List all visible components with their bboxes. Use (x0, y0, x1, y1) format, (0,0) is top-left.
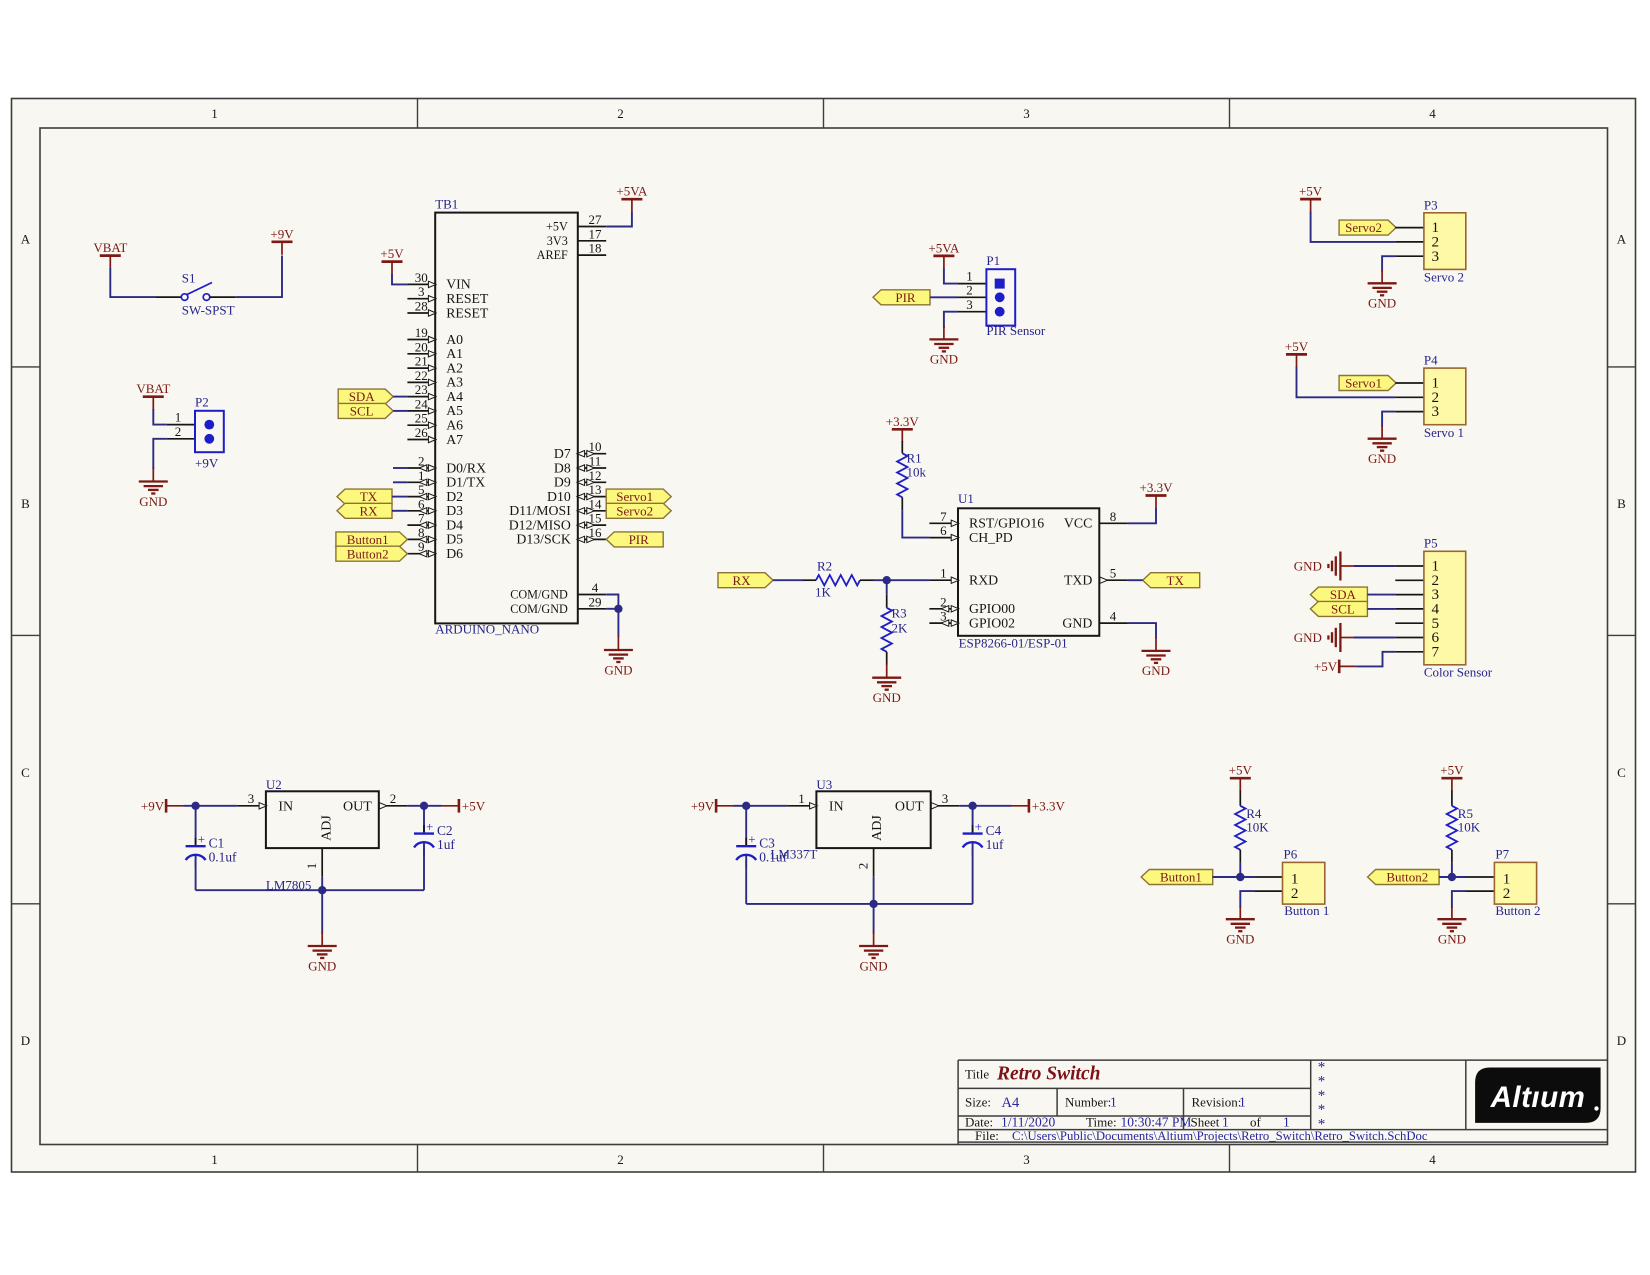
svg-text:1: 1 (1110, 1095, 1117, 1110)
svg-text:2: 2 (390, 791, 397, 806)
svg-text:SDA: SDA (1330, 587, 1357, 602)
svg-text:SDA: SDA (349, 389, 376, 404)
svg-text:2K: 2K (892, 620, 909, 635)
svg-text:+: + (975, 819, 982, 834)
ground GND (U1) (1142, 637, 1171, 678)
wire node to C3 (745, 806, 747, 846)
svg-text:SCL: SCL (1331, 602, 1355, 617)
svg-text:AREF: AREF (537, 248, 568, 262)
svg-text:1: 1 (211, 106, 218, 121)
TB1 pin 4 COM/GND (510, 580, 606, 602)
svg-text:A: A (1617, 232, 1627, 247)
svg-text:of: of (1250, 1114, 1262, 1129)
svg-text:P4: P4 (1424, 353, 1438, 368)
power +5V (U2 output) (442, 799, 486, 814)
wire SCL to P5 pin 4 (1367, 608, 1395, 610)
svg-text:P2: P2 (195, 395, 209, 410)
svg-text:1: 1 (940, 566, 947, 581)
wire Button2/R5 to P7 pin 1 with node (1439, 863, 1466, 881)
svg-text:A5: A5 (446, 403, 463, 418)
TB1 pin 10 D7 (554, 439, 606, 461)
svg-text:SCL: SCL (350, 404, 374, 419)
TB1 pin 8 D5 (407, 525, 463, 547)
svg-text:10: 10 (589, 439, 602, 454)
svg-text:D4: D4 (446, 517, 463, 532)
svg-text:28: 28 (415, 299, 428, 314)
svg-text:ADJ: ADJ (320, 815, 335, 841)
svg-text:ARDUINO_NANO: ARDUINO_NANO (435, 622, 539, 637)
port Button2 (to D6) (336, 546, 408, 561)
svg-text:P1: P1 (986, 253, 1000, 268)
U1 pin 4 GND (1062, 609, 1128, 631)
svg-text:12: 12 (589, 468, 602, 483)
svg-text:1: 1 (1222, 1114, 1229, 1129)
ground GND (U3) (859, 932, 888, 973)
svg-text:13: 13 (589, 482, 602, 497)
wire stub D0/RX (393, 467, 407, 469)
svg-text:TX: TX (360, 489, 378, 504)
TB1 pin 1 D1/TX (407, 468, 485, 490)
svg-text:U1: U1 (958, 491, 974, 506)
port PIR (from P1 pin 2) (873, 290, 930, 305)
capacitor C4 1uf (963, 819, 1004, 855)
port Servo2 (to P3 pin 1) (1339, 220, 1396, 235)
capacitor C1 0.1uf (186, 832, 237, 868)
svg-text:Servo2: Servo2 (616, 503, 653, 518)
ground GND (P5 pin 6) (1294, 623, 1354, 652)
svg-text:U3: U3 (816, 777, 832, 792)
wire C3 to rail (745, 856, 747, 904)
wire +9V to U2 IN with node (183, 802, 237, 810)
power +5V (P4) (1285, 339, 1309, 368)
ic U3 LM337T body (770, 777, 930, 862)
wire Button1/R4 to P6 pin 1 with node (1213, 863, 1255, 881)
power +5V (R5) (1440, 763, 1464, 792)
wire stub D1/TX (393, 481, 407, 483)
svg-text:C2: C2 (437, 823, 453, 838)
svg-text:*: * (1318, 1116, 1326, 1132)
wire R1 to CH_PD (902, 510, 929, 537)
TB1 pin 26 A7 (407, 425, 463, 447)
svg-text:25: 25 (415, 411, 428, 426)
svg-text:C: C (21, 765, 30, 780)
svg-text:Servo1: Servo1 (616, 489, 653, 504)
ground GND (P3) (1368, 270, 1397, 311)
wire TXD to TX port (1128, 579, 1143, 581)
svg-text:COM/GND: COM/GND (510, 588, 568, 602)
svg-text:GND: GND (1294, 559, 1322, 574)
U1 pin 8 VCC (1064, 509, 1128, 531)
svg-text:4: 4 (1110, 609, 1117, 624)
svg-text:1: 1 (211, 1152, 218, 1167)
svg-text:Button 1: Button 1 (1284, 903, 1329, 918)
svg-text:8: 8 (418, 525, 425, 540)
wire PIR port to P1 pin 2 (930, 296, 958, 298)
svg-text:7: 7 (418, 511, 425, 526)
svg-text:11: 11 (589, 454, 602, 469)
svg-text:C3: C3 (759, 836, 775, 851)
svg-text:2: 2 (1503, 885, 1511, 902)
svg-text:+: + (426, 819, 433, 834)
ground GND (U2) (308, 932, 337, 973)
svg-text:27: 27 (589, 212, 603, 227)
ground GND (P2) (139, 467, 168, 509)
svg-text:1: 1 (418, 468, 425, 483)
svg-text:PIR: PIR (629, 532, 650, 547)
TB1 pin 21 A2 (407, 354, 463, 376)
ground GND (P5 pin 1) (1294, 552, 1354, 581)
power +3.3V (U1 VCC) (1140, 480, 1174, 509)
svg-text:1uf: 1uf (986, 837, 1004, 852)
port SDA (to P5 pin 3) (1310, 587, 1367, 602)
U2 pin 1 ADJ (304, 848, 322, 877)
wire SDA to P5 pin 3 (1367, 594, 1395, 596)
svg-text:+3.3V: +3.3V (1140, 480, 1174, 495)
connector P5 Color Sensor (1395, 536, 1493, 680)
wire node to R3 (886, 580, 888, 595)
svg-text:+5V: +5V (1314, 659, 1338, 674)
svg-text:3: 3 (1432, 248, 1440, 265)
svg-text:GND: GND (1226, 932, 1254, 947)
TB1 pin 25 A6 (407, 411, 463, 433)
svg-text:RESET: RESET (446, 291, 489, 306)
svg-text:CH_PD: CH_PD (969, 530, 1013, 545)
svg-text:1uf: 1uf (437, 837, 455, 852)
svg-text:P6: P6 (1284, 846, 1298, 861)
ground GND (P4) (1368, 425, 1397, 466)
svg-text:22: 22 (415, 368, 428, 383)
svg-text:GND: GND (604, 662, 632, 677)
svg-text:3: 3 (940, 609, 947, 624)
svg-text:D13/SCK: D13/SCK (516, 532, 570, 547)
ground GND (P1) (929, 326, 958, 367)
svg-text:+3.3V: +3.3V (886, 414, 920, 429)
svg-text:3: 3 (1023, 1152, 1030, 1167)
U3 pin 1 IN (788, 791, 817, 809)
power +9V (S1 output) (270, 226, 294, 255)
svg-text:Color Sensor: Color Sensor (1424, 665, 1493, 680)
wire RX to R2 (773, 579, 803, 581)
svg-text:C: C (1617, 765, 1626, 780)
svg-text:VBAT: VBAT (136, 381, 170, 396)
wire C1 to rail (195, 856, 197, 891)
svg-text:COM/GND: COM/GND (510, 602, 568, 616)
svg-text:Servo 1: Servo 1 (1424, 425, 1464, 440)
svg-text:+5V: +5V (1285, 339, 1309, 354)
connector P3 Servo 2 (1395, 197, 1466, 284)
ground GND (R3) (872, 664, 901, 706)
svg-text:23: 23 (415, 382, 428, 397)
power +VBAT (S1 input) (93, 240, 127, 269)
svg-text:B: B (1617, 496, 1626, 511)
svg-text:GND: GND (1294, 630, 1322, 645)
svg-text:8: 8 (1110, 509, 1117, 524)
svg-text:R3: R3 (892, 606, 907, 621)
svg-text:16: 16 (589, 525, 603, 540)
svg-text:Number:: Number: (1065, 1095, 1111, 1110)
wire P4 pin 3 to GND (1382, 412, 1395, 427)
svg-text:10:30:47 PM: 10:30:47 PM (1121, 1114, 1192, 1129)
svg-text:+5V: +5V (1299, 184, 1323, 199)
svg-text:GND: GND (1438, 932, 1466, 947)
port PIR (to D13) (606, 532, 663, 547)
svg-text:R1: R1 (907, 450, 922, 465)
svg-text:2: 2 (1291, 885, 1299, 902)
wire GND to P5 pin 6 (1353, 637, 1395, 639)
svg-text:B: B (21, 496, 30, 511)
capacitor C2 1uf (414, 819, 455, 855)
svg-text:10K: 10K (1458, 820, 1481, 835)
svg-text:GPIO02: GPIO02 (969, 615, 1015, 630)
svg-text:D8: D8 (554, 460, 571, 475)
TB1 pin 18 AREF (537, 241, 607, 263)
wire VCC to +3.3V (1128, 508, 1156, 523)
svg-text:29: 29 (589, 594, 602, 609)
U1 pin 1 RXD (929, 566, 998, 588)
svg-text:D12/MISO: D12/MISO (509, 517, 571, 532)
svg-text:2: 2 (418, 454, 425, 469)
TB1 pin 15 D12/MISO (509, 511, 606, 533)
wire GND to P5 pin 1 (1353, 565, 1395, 567)
wire VBAT to P2 pin 1 (153, 409, 167, 425)
power +5V (R4) (1229, 763, 1253, 792)
port Button1 (to P6 pin 1) (1141, 870, 1213, 885)
svg-text:P5: P5 (1424, 536, 1438, 551)
svg-text:3: 3 (942, 791, 949, 806)
svg-text:GND: GND (860, 958, 888, 973)
svg-text:Servo1: Servo1 (1345, 376, 1382, 391)
svg-text:D1/TX: D1/TX (446, 475, 485, 490)
wire COM/GND pins to ground (606, 595, 622, 638)
power +5VA (P1) (928, 240, 960, 269)
svg-text:D: D (1617, 1033, 1626, 1048)
TB1 pin 30 VIN (407, 270, 470, 292)
svg-text:GND: GND (930, 352, 958, 367)
svg-text:0.1uf: 0.1uf (209, 850, 237, 865)
svg-text:SW-SPST: SW-SPST (182, 303, 235, 318)
connector P1 PIR Sensor (958, 253, 1046, 338)
power +5V (P5 pin 7) (1314, 659, 1356, 674)
svg-text:TXD: TXD (1064, 573, 1092, 588)
wire +5V to P5 pin 7 (1356, 652, 1395, 667)
svg-text:24: 24 (415, 396, 429, 411)
svg-text:RST/GPIO16: RST/GPIO16 (969, 516, 1044, 531)
power +9V (U2 input) (141, 799, 183, 814)
svg-text:RESET: RESET (446, 305, 489, 320)
power +5VA (TB1 pin 27) (616, 184, 648, 213)
svg-text:D2: D2 (446, 489, 463, 504)
power +3.3V (R1) (886, 414, 920, 443)
port Servo1 (to P4 pin 1) (1339, 376, 1396, 391)
port Button2 (to P7 pin 1) (1368, 870, 1440, 885)
TB1 pin 24 A5 (407, 396, 463, 418)
svg-text:PIR Sensor: PIR Sensor (986, 323, 1046, 338)
TB1 pin 13 D10 (547, 482, 606, 504)
port RX (to ESP RXD) (718, 573, 773, 588)
port Servo1 (from D10) (606, 489, 671, 504)
TB1 pin 29 COM/GND (510, 594, 606, 616)
svg-text:2: 2 (175, 424, 182, 439)
TB1 pin 28 RESET (407, 299, 489, 321)
svg-text:IN: IN (829, 800, 844, 815)
wire +5V to VIN (392, 274, 407, 284)
port SCL (to P5 pin 4) (1310, 601, 1367, 616)
U3 pin 3 OUT (931, 791, 960, 809)
title block (958, 1060, 1607, 1145)
power +5V (TB1 VIN) (380, 246, 404, 275)
svg-text:Altıum: Altıum (1490, 1081, 1586, 1114)
U1 pin 7 RST/GPIO16 (929, 509, 1044, 531)
svg-text:14: 14 (589, 496, 603, 511)
svg-text:3: 3 (1023, 106, 1030, 121)
TB1 pin 16 D13/SCK (516, 525, 606, 547)
resistor R4 10K (1235, 791, 1269, 863)
svg-text:Button1: Button1 (1160, 870, 1202, 885)
wire U1 GND pin to ground (1128, 623, 1156, 638)
svg-text:D5: D5 (446, 532, 463, 547)
wire +9V to U3 IN with node (733, 802, 788, 810)
svg-text:C:\Users\Public\Documents\Alti: C:\Users\Public\Documents\Altium\Project… (1012, 1129, 1428, 1143)
svg-text:OUT: OUT (895, 800, 924, 815)
TB1 pin 7 D4 (407, 511, 463, 533)
port TX (from U1 TXD) (1143, 573, 1200, 588)
svg-text:5: 5 (1110, 566, 1117, 581)
port Servo2 (from D11) (606, 503, 671, 518)
switch S1 SW-SPST (156, 271, 235, 318)
svg-text:3: 3 (418, 284, 425, 299)
connector P2 (+9V battery) (167, 395, 224, 471)
connector P6 Button 1 (1254, 846, 1329, 918)
svg-text:1/11/2020: 1/11/2020 (1001, 1114, 1056, 1129)
wire S1 to +9V (235, 256, 282, 298)
svg-text:+3.3V: +3.3V (1032, 799, 1066, 814)
svg-text:17: 17 (589, 226, 603, 241)
svg-text:R2: R2 (817, 559, 832, 574)
ic TB1 ARDUINO_NANO body (435, 197, 578, 637)
svg-text:GND: GND (1062, 615, 1092, 630)
power +3.3V (U3 output) (1012, 799, 1066, 814)
TB1 pin 19 A0 (407, 325, 463, 347)
svg-text:0.1uf: 0.1uf (759, 850, 787, 865)
Altium logo (1475, 1068, 1601, 1123)
svg-text:Date:: Date: (965, 1114, 993, 1129)
svg-text:6: 6 (418, 496, 425, 511)
svg-text:21: 21 (415, 354, 428, 369)
svg-text:+: + (198, 832, 205, 847)
svg-text:GPIO00: GPIO00 (969, 601, 1015, 616)
U2 pin 3 IN (237, 791, 266, 809)
svg-text:A6: A6 (446, 418, 463, 433)
resistor R3 2K (882, 595, 909, 665)
TB1 pin 6 D3 (407, 496, 463, 518)
svg-text:GND: GND (1142, 663, 1170, 678)
svg-text:C4: C4 (986, 823, 1002, 838)
svg-text:RX: RX (359, 503, 378, 518)
svg-text:Retro Switch: Retro Switch (996, 1064, 1100, 1085)
svg-text:A4: A4 (1002, 1095, 1020, 1111)
svg-text:15: 15 (589, 511, 602, 526)
svg-text:2: 2 (966, 282, 973, 297)
svg-text:4: 4 (592, 580, 599, 595)
svg-text:20: 20 (415, 339, 428, 354)
svg-text:10K: 10K (1246, 820, 1269, 835)
svg-text:A7: A7 (446, 432, 463, 447)
svg-text:+5VA: +5VA (616, 184, 648, 199)
svg-text:GND: GND (139, 494, 167, 509)
resistor R1 10k (897, 441, 926, 510)
svg-text:7: 7 (940, 509, 947, 524)
ground GND (TB1) (604, 636, 633, 677)
svg-text:Title: Title (965, 1067, 989, 1082)
connector P7 Button 2 (1466, 846, 1541, 918)
U1 pin 3 GPIO02 (929, 609, 1015, 631)
svg-text:U2: U2 (266, 777, 282, 792)
svg-text:+5V: +5V (1440, 763, 1464, 778)
svg-text:+5VA: +5VA (928, 240, 960, 255)
svg-text:IN: IN (278, 800, 293, 815)
U1 pin 2 GPIO00 (929, 594, 1015, 616)
TB1 pin 27 +5V (546, 212, 606, 234)
port Button1 (to D5) (336, 532, 408, 547)
power VBAT (P2) (136, 381, 170, 410)
svg-text:OUT: OUT (343, 800, 372, 815)
svg-text:Button 2: Button 2 (1495, 903, 1540, 918)
wire rail to GND (U2) (321, 890, 323, 933)
wire P1 pin 3 to GND (944, 312, 958, 328)
svg-text:+9V: +9V (691, 799, 715, 814)
svg-text:D7: D7 (554, 446, 571, 461)
svg-text:Button2: Button2 (1386, 870, 1428, 885)
svg-text:3: 3 (248, 791, 255, 806)
ground GND (P7) (1437, 907, 1466, 947)
svg-text:TX: TX (1167, 573, 1185, 588)
svg-text:RX: RX (732, 573, 751, 588)
svg-text:GND: GND (1368, 296, 1396, 311)
ic U2 LM7805 body (266, 777, 379, 893)
connector P4 Servo 1 (1395, 353, 1466, 440)
wire node to C4 (972, 806, 974, 834)
svg-text:A3: A3 (446, 375, 463, 390)
TB1 pin 22 A3 (407, 368, 463, 390)
TB1 pin 9 D6 (407, 539, 463, 561)
resistor R5 10K (1447, 791, 1481, 863)
port SDA (to A4) (338, 389, 393, 404)
svg-text:+5V: +5V (380, 246, 404, 261)
ground GND (P6) (1226, 907, 1255, 947)
wire C2 to rail (423, 843, 425, 890)
wire U2 OUT to +5V with node (407, 802, 442, 810)
svg-text:10k: 10k (907, 465, 927, 480)
wire ground rail U2 (196, 877, 424, 895)
svg-text:VBAT: VBAT (93, 240, 127, 255)
wire rail to GND (U3) (873, 904, 875, 934)
svg-text:2: 2 (617, 1152, 624, 1167)
TB1 pin 14 D11/MOSI (509, 496, 606, 518)
ic U1 ESP8266-01/ESP-01 body (958, 491, 1099, 651)
svg-text:1: 1 (175, 410, 182, 425)
svg-text:A1: A1 (446, 346, 463, 361)
wire +5V to P4 pin 2 (1297, 367, 1396, 398)
TB1 pin 23 A4 (407, 382, 463, 404)
port TX (to D2) (337, 489, 392, 504)
svg-text:Revision:: Revision: (1192, 1095, 1242, 1110)
svg-text:3: 3 (1432, 403, 1440, 420)
svg-text:D6: D6 (446, 546, 463, 561)
svg-text:+9V: +9V (141, 799, 165, 814)
TB1 pin 20 A1 (407, 339, 463, 361)
wire ground rail U3 (746, 877, 972, 908)
svg-text:D0/RX: D0/RX (446, 460, 486, 475)
